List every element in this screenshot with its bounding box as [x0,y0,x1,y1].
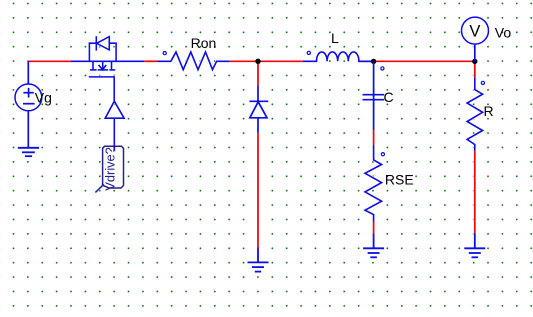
ground (diode) [248,248,269,272]
voltage source Vg [15,61,42,148]
wire [474,151,476,234]
node marker (RSE) [381,153,384,156]
node B junction [371,59,376,64]
transistor Q1 (MOSFET with body diode) [71,36,145,101]
wire [359,60,475,62]
ground (RSE) [363,234,384,258]
wire [144,60,157,62]
wire [229,60,303,62]
node C junction [472,59,477,64]
node marker (R) [481,81,484,84]
wire [28,60,71,62]
svg-text:L: L [331,30,339,46]
svg-text:Vo: Vo [495,25,512,41]
svg-text:Ron: Ron [191,35,217,51]
label Vdrive? box [95,146,123,192]
svg-text:Vdrive?: Vdrive? [102,147,117,190]
node marker (Ron) [163,52,166,55]
svg-text:C: C [384,89,394,105]
resistor RSE [365,145,382,222]
svg-text:R: R [484,103,494,119]
node marker (C) [381,67,384,70]
svg-text:V: V [469,23,480,41]
inductor L [303,52,374,61]
resistor R [467,77,483,150]
node marker (L) [307,51,310,54]
wire [373,222,375,234]
resistor Ron [157,52,229,70]
voltmeter V (Vo probe) [462,17,489,61]
node A junction [255,59,260,64]
wire [474,61,476,77]
svg-text:RSE: RSE [385,172,414,188]
diode D1 (freewheeling) [249,85,268,132]
wire [257,133,259,248]
svg-text:Vg: Vg [35,89,52,105]
wire [373,130,375,144]
ground (Vg) [18,148,39,156]
capacitor C [363,61,385,130]
wire [257,61,259,85]
ground (R) [464,234,485,258]
gate driver triangle [105,101,124,146]
